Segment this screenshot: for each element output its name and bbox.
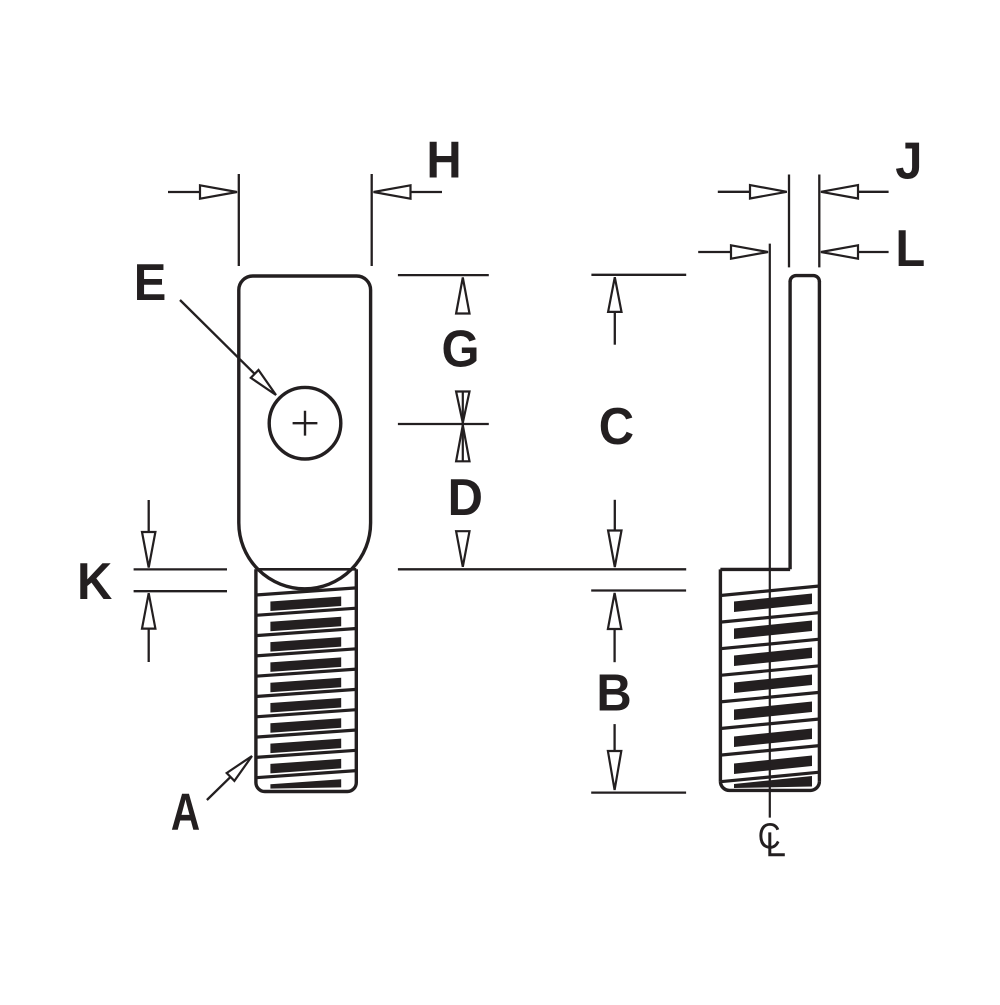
K lower reference line left segment: [134, 590, 227, 592]
dimension J right shaft: [858, 191, 889, 193]
svg-text:G: G: [441, 319, 479, 378]
svg-text:E: E: [134, 253, 167, 312]
side view plate left edge: [788, 281, 791, 569]
B bottom reference line: [591, 791, 686, 793]
G down arrowhead at mid line: [456, 392, 469, 423]
dimension J right arrowhead: [821, 185, 858, 198]
C upper shaft: [614, 312, 616, 345]
svg-text:J: J: [895, 131, 922, 190]
C up arrowhead: [608, 277, 621, 312]
svg-text:L: L: [895, 219, 925, 278]
svg-text:D: D: [448, 468, 483, 527]
label E leader arrowhead: [251, 370, 276, 395]
shank right edge (front view): [355, 569, 358, 782]
label A leader line: [207, 777, 231, 800]
dimension L right shaft: [858, 251, 889, 253]
svg-text:H: H: [426, 130, 461, 189]
K upper arrowhead: [142, 532, 155, 568]
side view plate/stud right edge: [818, 281, 821, 781]
centerline extension through side view: [769, 244, 771, 818]
thread crest lines (front view): [256, 588, 356, 778]
centerline symbol L part: [770, 832, 785, 854]
dimension L left arrowhead: [731, 245, 768, 258]
dimension J left arrowhead: [750, 185, 787, 198]
dimension H right arrowhead: [374, 185, 411, 198]
B down arrowhead: [608, 751, 621, 790]
svg-text:A: A: [171, 783, 200, 841]
hole E circle: [269, 387, 341, 459]
dimension H left extension line: [238, 174, 240, 266]
thread root bands (front view): [270, 597, 341, 789]
B lower shaft: [613, 724, 615, 751]
B up arrowhead: [608, 593, 621, 629]
shoulder reference line long segment: [398, 568, 686, 570]
dimension J left shaft: [718, 191, 750, 193]
dimension H right shaft: [411, 191, 443, 193]
K lower arrowhead: [142, 593, 155, 628]
G/D mid reference line (hole center): [398, 423, 489, 425]
side view plate top edge: [790, 276, 819, 282]
dimension L right arrowhead: [821, 245, 858, 258]
side view stud bottom edge with chamfers: [720, 781, 819, 790]
B top reference line: [591, 589, 686, 591]
dimension J right extension line: [818, 175, 820, 268]
dimension L left shaft: [698, 251, 731, 253]
C lower shaft: [614, 500, 616, 531]
shank left edge (front view): [254, 569, 257, 782]
D down arrowhead at shoulder line: [456, 531, 469, 567]
C down arrowhead: [608, 531, 621, 568]
side view stud shoulder line: [720, 568, 790, 571]
svg-text:C: C: [599, 397, 634, 456]
K upper shaft: [148, 500, 150, 532]
hole E cross: [293, 411, 318, 436]
dimension J left extension line: [788, 175, 790, 268]
dimension H left arrowhead: [200, 185, 237, 198]
G top reference line: [398, 274, 489, 276]
label A leader arrowhead: [227, 756, 252, 781]
shank bottom edge with chamfer corners (front view): [256, 783, 356, 792]
B upper shaft: [613, 629, 615, 662]
K shoulder reference line left segment: [134, 568, 227, 570]
G/D hourglass shaft: [462, 392, 464, 462]
dimension H left shaft: [168, 191, 200, 193]
D up arrowhead at mid line: [456, 425, 469, 461]
side view thread crest lines: [720, 586, 819, 782]
svg-text:K: K: [77, 552, 112, 611]
dimension H right extension line: [371, 174, 373, 266]
G up arrowhead: [456, 278, 469, 314]
side view stud left edge: [719, 569, 722, 781]
C top reference line: [591, 274, 686, 276]
side view thread root bands: [734, 594, 812, 789]
K lower shaft: [148, 629, 150, 662]
tab head outline (front view): [239, 276, 371, 589]
shank shoulder line (front view): [256, 568, 356, 571]
svg-text:C: C: [758, 817, 781, 857]
svg-text:B: B: [596, 663, 631, 722]
label E leader line: [180, 300, 255, 374]
